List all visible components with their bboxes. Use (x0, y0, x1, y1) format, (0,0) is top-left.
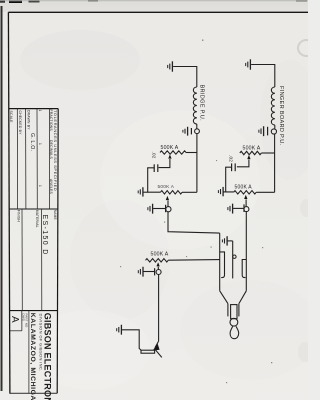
jack funnel (220, 291, 247, 304)
wire cap to tone pot (226, 167, 234, 192)
wire volume to bus (261, 152, 274, 154)
svg-text:500K A: 500K A (151, 252, 169, 258)
output arrow to contact plate (153, 341, 162, 357)
wire tone to bus (182, 191, 197, 193)
plug ball (230, 318, 238, 326)
node bridge junction (195, 129, 200, 134)
svg-text:MATERIAL: MATERIAL (35, 210, 39, 228)
svg-text:BRIDGE P.U.: BRIDGE P.U. (198, 85, 204, 122)
wire tone wiper down (167, 201, 169, 207)
wiper arrow bridge volume (168, 154, 171, 158)
wire wiper to cap (159, 159, 170, 168)
svg-text:500K A: 500K A (161, 145, 179, 151)
svg-text:DECIMALS: DECIMALS (49, 140, 53, 159)
label DWG PART NO (22, 314, 29, 328)
svg-text:FINGER BOARD P.U.: FINGER BOARD P.U. (278, 86, 284, 146)
jack contact middle curl (233, 255, 236, 258)
svg-text:SCALE: SCALE (9, 111, 13, 124)
ground G9 master cap (138, 267, 143, 277)
svg-text:FRACTIONS: FRACTIONS (49, 110, 53, 132)
svg-text:TOLERANCES UNLESS SPECIFIED: TOLERANCES UNLESS SPECIFIED (53, 110, 58, 191)
wire ground to tone pot (143, 191, 148, 193)
svg-text:DIVISION OF GIBSON INC.: DIVISION OF GIBSON INC. (39, 314, 44, 372)
ground G5 fingerboard cap (259, 126, 264, 136)
title block outline right edge (57, 109, 58, 394)
capacitor fingerboard plate (267, 127, 269, 136)
wire ground to bridge coil (173, 67, 197, 88)
resistor fingerboard volume 500K A (240, 151, 262, 154)
plug tip teardrop (230, 326, 239, 338)
capacitor .02 fingerboard plates (232, 163, 236, 171)
ground G7 bridge tone cap (148, 204, 153, 214)
svg-text:NAME: NAME (53, 210, 57, 220)
wire cap to ground (233, 207, 244, 209)
jack contact middle (232, 241, 234, 279)
node fingerboard tone cap junction (244, 207, 249, 212)
node master cap junction (156, 270, 161, 275)
wire master output down (158, 275, 160, 342)
wire ground to contact plate (122, 330, 142, 351)
ground G4 bridge cap (183, 127, 188, 136)
svg-text:ES-150 D: ES-150 D (41, 215, 48, 256)
wire cap to ground (153, 208, 166, 210)
wiper arrow fingerboard tone (244, 195, 247, 199)
svg-text:1: 1 (38, 185, 42, 187)
wiper arrow bridge tone (166, 196, 169, 200)
title block section A column lines (17, 109, 49, 209)
wire fingerboard output down (jack right side) (245, 212, 247, 291)
svg-text:PART NO: PART NO (25, 314, 29, 328)
wire ground to tone line (223, 191, 225, 193)
wire ground to fingerboard coil (251, 65, 275, 88)
label FRACTIONS DECIMALS ANGLES (49, 110, 53, 195)
ground G11 output (117, 325, 122, 335)
svg-text:DRAWN BY: DRAWN BY (27, 110, 31, 130)
capacitor bridge tone plate (165, 205, 167, 212)
plug barrel outer (228, 304, 239, 317)
resistor fingerboard tone 500K A (234, 191, 257, 194)
ground G8 fingerboard tone cap (228, 204, 233, 214)
title block bottom line (10, 392, 57, 394)
svg-text:G. L.O.: G. L.O. (29, 133, 35, 151)
resistor master volume 500K A (146, 259, 169, 262)
plug shaft (231, 305, 237, 319)
wire wiper down (157, 267, 159, 270)
title block divider B/C (10, 310, 58, 312)
wire coil to node (274, 125, 276, 129)
capacitor fingerboard tone plate (243, 204, 245, 212)
wiper arrow master volume (156, 262, 159, 266)
wire tone wiper down (245, 199, 247, 206)
wire ground to jack contact middle (227, 240, 232, 242)
wire tone to bus (256, 191, 274, 193)
svg-text:A: A (9, 316, 20, 323)
ground G2 bridge tone pot (138, 187, 143, 196)
contact plate (141, 350, 155, 353)
title block section C column lines (9, 311, 29, 394)
wire bridge bus (196, 134, 198, 193)
capacitor bridge plate (190, 128, 192, 134)
ground G1 bridge pickup (168, 61, 173, 71)
wire coil to node (196, 124, 198, 129)
node bridge tone cap junction (166, 207, 171, 212)
svg-text:500K A: 500K A (243, 146, 261, 152)
wire fingerboard bus (274, 134, 276, 192)
wire wiper to cap (237, 160, 249, 167)
wire cap to ground (143, 271, 154, 273)
inductor fingerboard pickup coil (271, 87, 274, 125)
svg-text:500K A: 500K A (158, 184, 175, 190)
ground G6 fingerboard tone pot (218, 187, 223, 196)
wire volume to bus (186, 152, 197, 154)
jack contact right (242, 260, 246, 278)
svg-text:500K A: 500K A (235, 185, 253, 191)
node fingerboard junction (271, 129, 276, 134)
title block top line (9, 108, 58, 110)
svg-text:1: 1 (38, 110, 42, 112)
svg-text:.02: .02 (151, 152, 156, 159)
svg-text:ANGLES: ANGLES (49, 179, 53, 194)
resistor bridge tone 500K A (160, 191, 182, 194)
jack contact left (220, 252, 225, 278)
inductor bridge pickup coil (193, 87, 196, 124)
title block section B column lines (22, 209, 42, 311)
ground G3 fingerboard pickup (246, 59, 251, 69)
svg-text:FINISH: FINISH (16, 210, 20, 222)
resistor bridge volume 500K A (160, 151, 186, 154)
ground G10 jack (222, 236, 227, 245)
title block divider A/B (9, 208, 58, 210)
wiper arrow fingerboard volume (247, 155, 250, 159)
svg-text:CHECKED BY: CHECKED BY (18, 111, 22, 136)
wire jack left side down (219, 233, 221, 291)
wire cap to tone pot (148, 168, 161, 192)
svg-text:.02: .02 (229, 155, 234, 162)
wire bridge output down and right (168, 212, 220, 233)
capacitor .02 bridge plates (154, 164, 158, 172)
svg-text:1: 1 (38, 143, 42, 145)
tolerance value marks (38, 110, 42, 188)
wire master volume to jack (168, 259, 220, 262)
capacitor master plate (154, 268, 156, 275)
svg-text:KALAMAZOO, MICHIGA: KALAMAZOO, MICHIGA (29, 313, 36, 400)
